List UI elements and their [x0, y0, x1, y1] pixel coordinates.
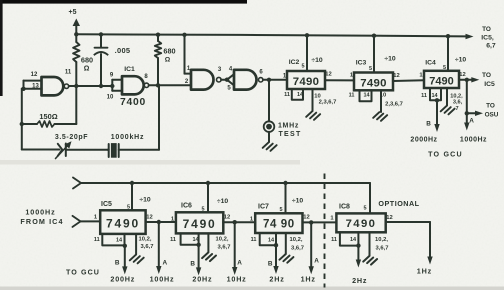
wire IC8 pin5 from rail	[369, 183, 371, 213]
wire IC4 pin5	[447, 36, 449, 71]
svg-text:10,2,: 10,2,	[375, 237, 388, 243]
svg-text:12: 12	[459, 72, 465, 78]
junction rail at IC3 pin5	[372, 34, 376, 38]
svg-text:7490: 7490	[293, 76, 320, 88]
node 20Hz label	[192, 275, 212, 284]
svg-text:680: 680	[163, 47, 175, 56]
svg-text:11: 11	[421, 93, 427, 99]
svg-text:2,3,6,7: 2,3,6,7	[385, 102, 403, 108]
svg-text:10,2,: 10,2,	[139, 237, 152, 243]
wire IC5 pin5	[131, 183, 133, 210]
wire crystal to gate2 output	[158, 85, 160, 149]
svg-text:IC1: IC1	[124, 66, 135, 73]
svg-text:1Hz: 1Hz	[301, 275, 316, 284]
svg-text:IC7: IC7	[258, 204, 269, 211]
node 1000Hz label	[460, 137, 487, 144]
wire feedback left vertical	[21, 89, 23, 150]
svg-text:IC5: IC5	[484, 81, 495, 88]
svg-text:2000Hz: 2000Hz	[410, 137, 437, 144]
svg-text:11: 11	[331, 237, 337, 243]
junction gate4 input node	[225, 78, 229, 82]
svg-text:2Hz: 2Hz	[269, 275, 284, 284]
svg-text:FROM IC4: FROM IC4	[20, 217, 63, 226]
wire gate4 output	[263, 79, 269, 81]
op-amp U1a NAND gate 7400 pins 12 13 11	[22, 70, 72, 96]
junction R1 gate1 output	[74, 84, 78, 88]
svg-text:14: 14	[192, 237, 199, 243]
wire IC2 pin5	[306, 35, 308, 71]
node 100Hz label	[150, 274, 175, 283]
svg-text:3.5-20pF: 3.5-20pF	[55, 134, 88, 141]
svg-text:12: 12	[146, 215, 152, 221]
wire gate2 output to gate3	[149, 84, 191, 86]
IC U6 IC6 7490	[176, 198, 228, 233]
wire IC8 pin10 ground	[370, 232, 389, 256]
junction IC7 B tap	[274, 243, 278, 247]
svg-text:Ω: Ω	[84, 66, 90, 73]
resistor R3 150&#937;	[22, 86, 77, 127]
wire arrow TO IC5	[467, 72, 495, 88]
wire IC3 pin12 to IC4 pin1	[393, 73, 424, 82]
junction rail at R2	[156, 33, 160, 37]
svg-text:5: 5	[369, 66, 372, 72]
node 1Hz optional label	[417, 267, 432, 276]
svg-text:10,2,: 10,2,	[450, 94, 463, 100]
junction gate1 input node	[21, 87, 25, 91]
node 1000Hz FROM IC4 label	[20, 207, 63, 226]
svg-text:IC2: IC2	[289, 59, 300, 66]
wire IC2 pin10 ground	[313, 89, 337, 111]
junction bottom rail IC5 pin5	[130, 181, 134, 185]
ground test point	[263, 142, 277, 151]
wire IC5 pin10 ground	[136, 234, 153, 255]
wire gate4 output to IC2 pin1	[269, 74, 287, 80]
svg-text:14: 14	[116, 237, 123, 243]
svg-text:1000kHz: 1000kHz	[111, 134, 145, 141]
wire gate1 output to gate2 input	[69, 85, 113, 87]
svg-text:1Hz: 1Hz	[417, 267, 432, 276]
node TO IC5 6 7 label	[481, 26, 496, 50]
svg-text:150Ω: 150Ω	[39, 112, 57, 121]
svg-text:5: 5	[201, 207, 204, 213]
wire IC5 B output 200Hz	[115, 246, 128, 275]
svg-text:.005: .005	[115, 46, 131, 55]
svg-text:OPTIONAL: OPTIONAL	[378, 199, 419, 208]
junction rail at IC4 pin5	[446, 34, 450, 38]
jumper IC3 pins 11-14	[349, 90, 372, 101]
junction OSU tap	[465, 111, 469, 115]
svg-text:12: 12	[31, 72, 38, 78]
svg-text:680: 680	[81, 56, 93, 65]
svg-text:7490: 7490	[360, 77, 387, 89]
svg-text:14: 14	[363, 93, 370, 99]
svg-text:IC5,: IC5,	[481, 34, 494, 41]
junction gate2 input node	[110, 84, 114, 88]
svg-text:10Hz: 10Hz	[227, 274, 247, 283]
junction IC7 output node	[309, 220, 313, 224]
wire IC5 A output 100Hz	[156, 222, 167, 274]
wire IC6 pin5	[207, 183, 209, 212]
svg-text:Ω: Ω	[165, 56, 171, 63]
IC U4 IC4 7490	[424, 56, 466, 88]
wire IC2 pin12 to IC3 pin1	[325, 72, 354, 81]
junction rail at IC2 pin5	[305, 33, 309, 37]
wire IC3 pin10 ground	[380, 90, 403, 112]
wire IC6 pin10 ground	[208, 233, 230, 252]
svg-text:÷10: ÷10	[139, 197, 151, 204]
svg-text:14: 14	[268, 238, 275, 244]
wire IC7 to IC8	[311, 216, 336, 223]
wire gate4 output down to test point	[268, 80, 270, 122]
svg-text:7490: 7490	[429, 75, 453, 87]
svg-text:÷10: ÷10	[384, 56, 396, 63]
svg-text:+5: +5	[69, 9, 77, 16]
junction IC4 pin12 node	[465, 78, 469, 82]
ground IC4	[441, 106, 455, 115]
node 2Hz label	[269, 275, 284, 284]
svg-text:74 90: 74 90	[263, 219, 295, 231]
junction bottom rail IC7 pin5	[283, 181, 287, 185]
svg-text:B: B	[115, 259, 120, 266]
wire IC4 pin10 ground	[447, 88, 463, 112]
ground IC8	[363, 256, 377, 265]
svg-text:IC6: IC6	[181, 203, 192, 210]
svg-text:11: 11	[284, 92, 290, 98]
svg-text:TO GCU: TO GCU	[66, 269, 100, 277]
svg-text:TO: TO	[486, 103, 495, 110]
junction IC4 B tap	[435, 98, 439, 102]
wire IC7 B output 2Hz	[268, 245, 279, 274]
scan artifact top edge bar	[2, 0, 247, 4]
ground IC3	[373, 112, 387, 121]
wire IC7 pin5	[285, 183, 287, 213]
junction gate4 output node	[267, 78, 271, 82]
IC U5 IC5 7490	[100, 197, 151, 234]
ground IC5	[130, 255, 144, 264]
svg-text:11: 11	[170, 237, 176, 243]
svg-text:11: 11	[65, 70, 72, 76]
svg-text:200Hz: 200Hz	[110, 274, 135, 283]
wire IC8 B output	[356, 246, 361, 268]
svg-text:TO: TO	[482, 72, 491, 79]
junction IC5 output node	[157, 220, 161, 224]
node +5 supply	[69, 9, 80, 34]
svg-text:5: 5	[127, 205, 130, 211]
svg-text:7490: 7490	[183, 217, 217, 231]
svg-text:14: 14	[350, 237, 357, 243]
svg-text:10: 10	[314, 93, 320, 99]
svg-text:10: 10	[107, 95, 114, 101]
test point TP1 1MHz TEST	[264, 121, 302, 138]
crystal Y1 1000kHz	[108, 134, 160, 157]
wire IC6 B output 20Hz	[190, 245, 201, 276]
wire IC4 pin12 output	[459, 72, 467, 80]
node TO GCU label bottom	[66, 269, 100, 277]
op-amp U1c NAND gate pins 1 2 3	[185, 35, 222, 90]
svg-text:TEST: TEST	[278, 131, 301, 138]
wire input 1000Hz to IC5 pin1	[73, 215, 101, 227]
wire IC7 A output 1Hz	[309, 222, 320, 274]
node 10Hz label	[227, 274, 247, 283]
wire IC3 pin5	[373, 36, 375, 73]
svg-text:10,2,: 10,2,	[290, 237, 303, 243]
dashed optional boundary	[324, 174, 326, 288]
svg-text:A: A	[237, 260, 242, 267]
svg-text:A: A	[469, 118, 474, 125]
wire IC7 pin10 ground	[286, 233, 304, 254]
svg-text:÷10: ÷10	[455, 56, 467, 63]
svg-text:5: 5	[363, 206, 366, 212]
svg-text:5: 5	[443, 65, 446, 71]
svg-text:12: 12	[303, 215, 309, 221]
svg-text:3,6,7: 3,6,7	[218, 245, 231, 251]
wire IC6 A output 10Hz	[232, 222, 242, 275]
junction IC6 output node	[233, 220, 237, 224]
svg-text:7: 7	[455, 106, 458, 112]
node TO GCU label top	[428, 151, 463, 159]
node 200Hz label	[110, 274, 135, 283]
svg-text:B: B	[426, 121, 431, 128]
svg-text:11: 11	[349, 93, 355, 99]
jumper IC2 pins 11-14	[284, 89, 304, 100]
capacitor C2 trimmer 3.5-20pF	[55, 134, 108, 159]
wire IC6 pin12 output	[223, 215, 234, 223]
svg-text:12: 12	[325, 72, 331, 78]
svg-text:13: 13	[32, 84, 39, 90]
svg-text:IC8: IC8	[339, 204, 350, 211]
svg-text:÷10: ÷10	[217, 198, 229, 205]
svg-text:20Hz: 20Hz	[192, 275, 212, 284]
wire IC4 B output 2000Hz	[426, 100, 440, 132]
junction bottom rail IC6 pin5	[206, 181, 210, 185]
op-amp U1d NAND gate pins 4 5 6	[227, 67, 263, 92]
junction 150 ohm left	[20, 122, 24, 126]
scan artifact mid streak	[0, 160, 300, 165]
wire bottom +5 rail	[73, 178, 370, 189]
svg-text:IC3: IC3	[356, 60, 367, 67]
node 1Hz label	[301, 275, 316, 284]
junction IC5 B tap	[123, 244, 127, 248]
svg-text:3,6,7: 3,6,7	[291, 246, 304, 252]
scan artifact bottom band	[0, 287, 504, 290]
svg-text:10: 10	[380, 93, 386, 99]
svg-text:11: 11	[251, 237, 257, 243]
svg-text:12: 12	[386, 215, 392, 221]
svg-text:A: A	[162, 260, 167, 267]
ground IC6	[202, 253, 216, 262]
IC U3 IC3 7490	[354, 56, 396, 91]
scan artifact left edge bar	[0, 0, 3, 96]
op-amp U1b NAND gate IC1 7400 pins 9 10 8	[107, 66, 149, 108]
svg-text:5: 5	[279, 207, 282, 213]
svg-text:B: B	[268, 261, 273, 268]
capacitor C1 .005	[94, 34, 131, 86]
IC U2 IC2 7490	[287, 57, 325, 89]
svg-text:2Hz: 2Hz	[352, 276, 367, 285]
svg-text:2,3,6,7: 2,3,6,7	[319, 100, 337, 106]
wire IC7 pin12 output	[303, 215, 312, 223]
IC U8 IC8 7490 OPTIONAL	[336, 199, 419, 232]
svg-text:TO: TO	[482, 26, 491, 33]
junction gate2 output node	[156, 83, 160, 87]
svg-text:14: 14	[297, 92, 304, 98]
wire test point to ground	[268, 132, 270, 142]
junction rail at C1	[99, 32, 103, 36]
svg-text:12: 12	[393, 73, 399, 79]
svg-text:1MHz: 1MHz	[278, 123, 299, 130]
svg-text:5: 5	[301, 64, 304, 70]
ground IC7	[280, 254, 294, 263]
wire +5 rail	[76, 34, 448, 36]
jumper IC4 pins 11-14	[421, 88, 441, 100]
junction rail at R1	[74, 32, 78, 36]
svg-text:A: A	[314, 258, 319, 265]
svg-text:11: 11	[94, 237, 100, 243]
junction IC8 B tap	[356, 243, 360, 247]
svg-text:1000Hz: 1000Hz	[460, 137, 487, 144]
jumper IC5 pins 11-14	[94, 234, 125, 246]
svg-text:IC5: IC5	[101, 201, 112, 208]
svg-text:OSU: OSU	[485, 112, 499, 119]
ground IC2	[306, 111, 320, 120]
IC U7 IC7 7490	[255, 198, 303, 234]
wire IC6 to IC7	[235, 217, 256, 223]
wire IC8 pin12 output 1Hz	[386, 215, 433, 265]
node 2Hz optional label	[352, 276, 367, 285]
svg-text:6,7: 6,7	[486, 43, 496, 50]
node 2000Hz label	[410, 137, 437, 144]
svg-text:3,6,: 3,6,	[453, 100, 463, 106]
svg-text:IC4: IC4	[425, 60, 436, 67]
svg-text:7490: 7490	[346, 218, 377, 230]
svg-text:TO GCU: TO GCU	[428, 151, 463, 159]
wire IC4 output down A	[464, 80, 474, 131]
svg-text:14: 14	[431, 93, 438, 99]
svg-text:10,2,: 10,2,	[216, 237, 229, 243]
svg-text:7490: 7490	[106, 217, 140, 231]
wire arrow TO OSU	[467, 103, 499, 119]
resistor R1 680&#937;	[73, 34, 93, 86]
junction C1 bottom	[99, 84, 103, 88]
wire feedback bottom	[22, 149, 60, 151]
resistor R2 680&#937;	[155, 35, 176, 86]
svg-text:B: B	[190, 260, 195, 267]
jumper IC6 pins 11-14	[170, 233, 199, 244]
svg-text:12: 12	[224, 215, 230, 221]
wire IC5 to IC6	[159, 217, 176, 223]
jumper IC8 pins 11-14	[331, 232, 358, 245]
svg-text:100Hz: 100Hz	[150, 274, 175, 283]
svg-text:7400: 7400	[120, 97, 146, 108]
svg-text:3,6,7: 3,6,7	[141, 244, 154, 250]
svg-text:÷10: ÷10	[311, 57, 323, 64]
wire +5 rail arrow to TO IC5 6 7	[448, 34, 474, 39]
wire gate3 output	[221, 79, 227, 81]
jumper IC7 pins 11-14	[251, 233, 276, 245]
junction IC6 B tap	[196, 243, 200, 247]
junction rail at G3 pin1	[182, 33, 186, 37]
wire IC5 pin12 output	[146, 215, 159, 223]
svg-text:3,6,7: 3,6,7	[376, 246, 389, 252]
svg-text:1000Hz: 1000Hz	[25, 207, 55, 216]
svg-text:÷10: ÷10	[292, 198, 304, 205]
